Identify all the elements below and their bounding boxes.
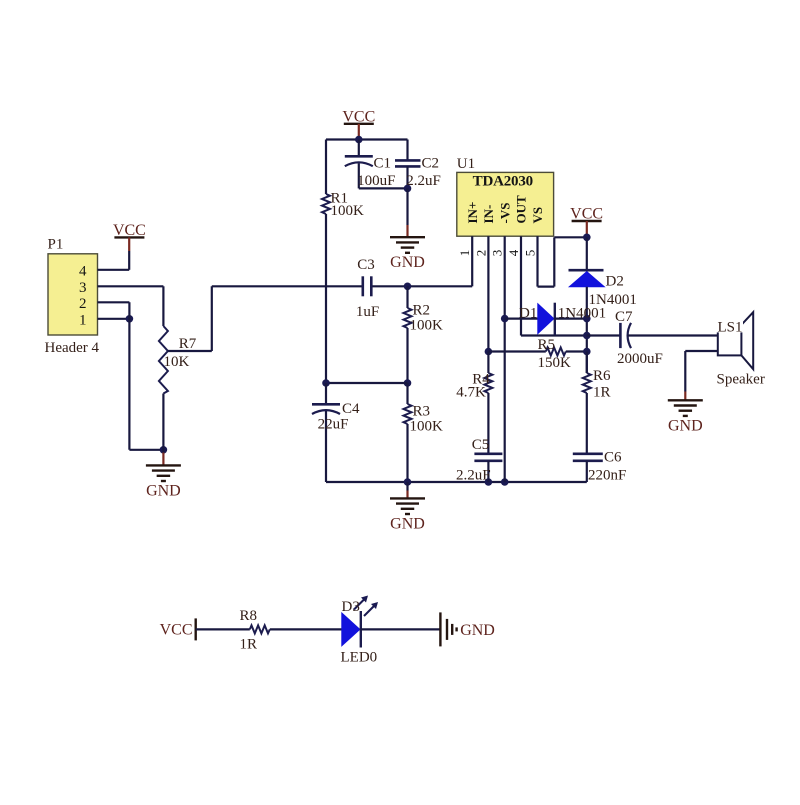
svg-text:22uF: 22uF [318, 416, 349, 432]
svg-text:OUT: OUT [514, 195, 529, 224]
svg-text:3: 3 [490, 250, 505, 257]
svg-text:C2: C2 [422, 156, 440, 172]
svg-text:100K: 100K [331, 203, 365, 219]
svg-text:IN-: IN- [481, 205, 496, 224]
svg-text:U1: U1 [457, 156, 475, 172]
svg-text:2000uF: 2000uF [617, 351, 663, 367]
svg-text:GND: GND [668, 417, 703, 434]
svg-text:150K: 150K [538, 355, 572, 371]
svg-text:2: 2 [473, 250, 488, 257]
svg-text:2.2uF: 2.2uF [456, 467, 491, 483]
svg-text:R8: R8 [240, 608, 258, 624]
svg-text:1: 1 [457, 250, 472, 257]
svg-text:10K: 10K [164, 354, 190, 370]
svg-text:1N4001: 1N4001 [558, 306, 606, 322]
svg-text:GND: GND [390, 254, 425, 271]
svg-text:4: 4 [506, 249, 521, 256]
svg-text:IN+: IN+ [465, 202, 480, 224]
svg-text:1: 1 [79, 312, 87, 328]
svg-text:D3: D3 [342, 599, 360, 615]
svg-text:GND: GND [390, 515, 425, 532]
svg-text:100uF: 100uF [357, 173, 395, 189]
svg-text:3: 3 [79, 280, 87, 296]
svg-text:1R: 1R [593, 385, 611, 401]
svg-text:C5: C5 [472, 437, 490, 453]
svg-text:100K: 100K [410, 318, 444, 334]
svg-text:VCC: VCC [342, 108, 375, 125]
svg-text:VCC: VCC [113, 222, 146, 239]
svg-text:220nF: 220nF [588, 467, 626, 483]
svg-text:2: 2 [79, 296, 87, 312]
svg-text:R3: R3 [413, 404, 431, 420]
svg-text:-VS: -VS [497, 203, 512, 224]
svg-text:C3: C3 [357, 257, 375, 273]
svg-text:1R: 1R [240, 637, 258, 653]
svg-text:D2: D2 [606, 274, 624, 290]
svg-text:GND: GND [146, 482, 181, 499]
svg-text:VCC: VCC [160, 621, 193, 638]
svg-text:VS: VS [530, 207, 545, 224]
svg-text:C6: C6 [604, 450, 622, 466]
svg-text:100K: 100K [410, 418, 444, 434]
svg-text:TDA2030: TDA2030 [473, 174, 533, 190]
svg-text:GND: GND [460, 622, 495, 639]
svg-text:Header 4: Header 4 [45, 340, 100, 356]
svg-text:D1: D1 [519, 306, 537, 322]
svg-text:R6: R6 [593, 368, 611, 384]
svg-text:4.7K: 4.7K [456, 385, 486, 401]
svg-text:R7: R7 [179, 336, 197, 352]
svg-text:R2: R2 [413, 303, 431, 319]
svg-text:R5: R5 [538, 337, 556, 353]
svg-text:C1: C1 [374, 156, 392, 172]
svg-text:5: 5 [523, 250, 538, 257]
svg-text:LS1: LS1 [718, 319, 743, 335]
svg-text:C4: C4 [342, 401, 360, 417]
svg-text:VCC: VCC [570, 206, 603, 223]
svg-text:C7: C7 [615, 309, 633, 325]
svg-text:P1: P1 [48, 236, 64, 252]
svg-text:2.2uF: 2.2uF [406, 173, 441, 189]
svg-text:Speaker: Speaker [717, 371, 765, 387]
svg-text:1uF: 1uF [356, 304, 379, 320]
svg-text:LED0: LED0 [341, 650, 378, 666]
svg-text:4: 4 [79, 263, 87, 279]
